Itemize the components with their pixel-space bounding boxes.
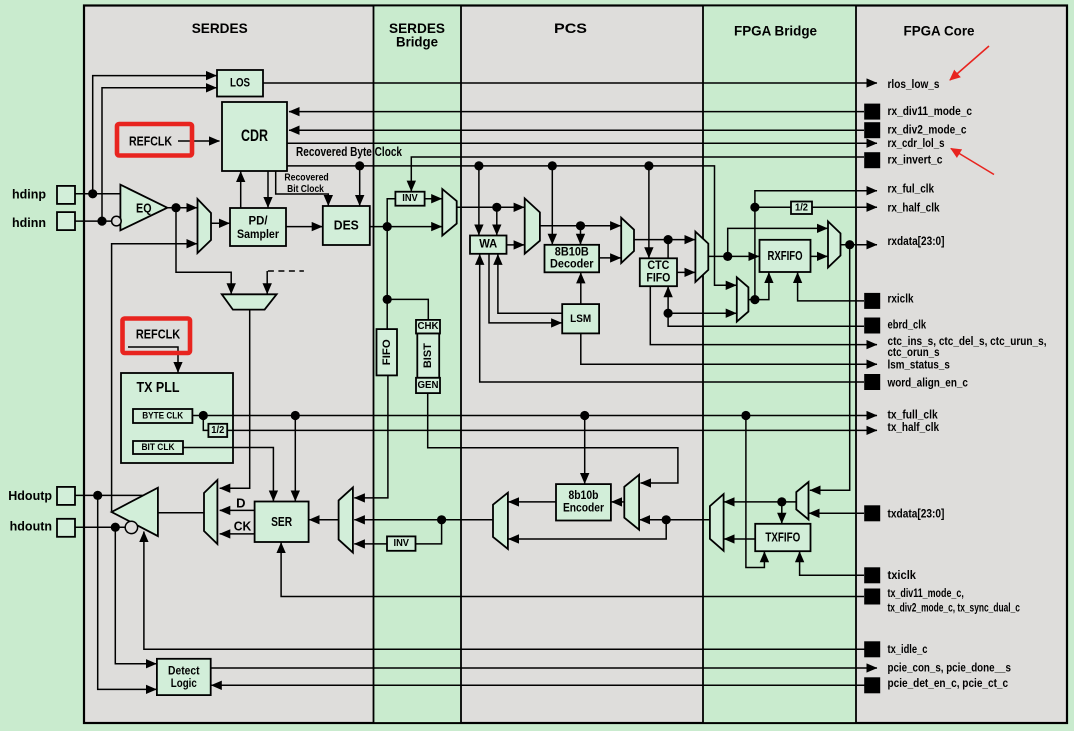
wire LSM status output <box>581 332 877 364</box>
junction DES output <box>383 222 392 231</box>
wire WA to LSM <box>489 254 562 323</box>
junction TX data INV2 <box>437 515 446 524</box>
block LOS <box>217 70 263 97</box>
junction hdinp-LOS <box>88 189 97 198</box>
wire REFCLK to CDR <box>178 140 220 142</box>
block LSM <box>562 304 599 333</box>
wire byte clock tap to WA <box>478 166 480 235</box>
port square word_align_en_c <box>864 374 880 390</box>
wire recovered byte clock <box>287 166 736 285</box>
svg-text:TX PLL: TX PLL <box>137 380 180 396</box>
wire encoder bypass <box>508 520 666 539</box>
svg-text:lsm_status_s: lsm_status_s <box>888 360 950 372</box>
svg-text:FPGA Core: FPGA Core <box>904 22 975 38</box>
wire ebrd_clk <box>668 313 864 326</box>
port square tx_div11 controls <box>864 589 880 605</box>
wire Hdoutp branch to detect logic <box>98 495 157 689</box>
wire CDR output rx_cdr_lol_s <box>287 142 877 144</box>
svg-text:pcie_det_en_c, pcie_ct_c: pcie_det_en_c, pcie_ct_c <box>888 678 1009 690</box>
wire byte clock tap to 8B10B decoder <box>551 166 553 244</box>
svg-text:PD/: PD/ <box>249 213 269 227</box>
wire lower mux to RXFIFO write <box>748 273 769 300</box>
wire clock tap to divider <box>755 206 791 208</box>
wire WA output to PCS mux <box>507 244 525 246</box>
pad Hdoutp <box>57 487 75 505</box>
wire rx_invert_c to INV <box>411 157 864 191</box>
wire byte clock to encoder <box>584 416 586 484</box>
junction TXFIFO input <box>777 497 786 506</box>
block PD/Sampler <box>230 208 286 246</box>
wire REFCLK to TX PLL <box>128 347 178 372</box>
wire PCS mux1 to mux2 <box>540 225 621 227</box>
mux M3 bridge RX <box>442 189 456 236</box>
wire DES output to bridge mux <box>370 226 442 228</box>
svg-text:rlos_low_s: rlos_low_s <box>888 79 940 91</box>
block divider 1/2 rx <box>791 202 812 215</box>
wire clock mux to driver mux <box>220 310 250 489</box>
svg-text:CHK: CHK <box>418 321 440 332</box>
junction byte clock decoder <box>548 161 557 170</box>
wire tx_idle_c to driver <box>144 532 865 650</box>
clock select mux (wide trapezoid) <box>222 294 277 309</box>
block WA <box>470 236 507 254</box>
wire dashed stub <box>268 270 304 272</box>
svg-text:LSM: LSM <box>570 313 591 325</box>
wire bridge mux to PCS mux <box>457 206 525 208</box>
svg-text:rx_ful_clk: rx_ful_clk <box>888 183 935 195</box>
svg-text:REFCLK: REFCLK <box>136 326 181 341</box>
red annotation arrow 2 <box>951 149 994 175</box>
wire CDR to PD/Sampler <box>267 171 269 208</box>
block FIFO <box>377 329 398 375</box>
wire DES tap to FIFO <box>386 227 388 330</box>
svg-text:tx_div11_mode_c,: tx_div11_mode_c, <box>888 588 964 600</box>
block 8b10b Encoder <box>556 484 611 520</box>
junction TX data bypass <box>662 515 671 524</box>
block divider 1/2 tx <box>208 424 227 437</box>
junction WA input <box>492 203 501 212</box>
svg-text:rx_div11_mode_c: rx_div11_mode_c <box>888 106 973 118</box>
wire BIT CLK to SER <box>183 448 273 502</box>
wire rx_div2_mode_c to CDR <box>289 129 864 131</box>
block BYTE CLK <box>133 409 192 423</box>
wire divider to tx_half_clk <box>227 429 877 431</box>
wire txiclk to TXFIFO <box>800 552 864 576</box>
block CHK <box>416 320 440 334</box>
wire tap to CHK <box>387 299 428 320</box>
junction rxdata <box>845 240 854 249</box>
wire byte clock tap to DES <box>359 166 361 206</box>
output driver triangle <box>112 488 158 536</box>
wire rx_div11_mode_c to CDR <box>289 111 864 113</box>
wire DES output tap to INV <box>387 199 395 227</box>
block CDR <box>222 102 287 171</box>
mux M10 driver select <box>204 480 217 544</box>
wire tap to bridge RX mux input 1 <box>728 228 828 256</box>
port square rx_div2_mode_c <box>864 122 880 138</box>
svg-text:tx_div2_mode_c, tx_sync_dual_c: tx_div2_mode_c, tx_sync_dual_c <box>888 603 1021 615</box>
wire byte clock to SER <box>294 416 296 502</box>
junction EQ output <box>171 203 180 212</box>
wire tx_div11 controls to SER <box>281 543 864 597</box>
FPGA Bridge green column <box>703 6 856 724</box>
svg-text:8B10B: 8B10B <box>555 246 589 258</box>
wire txdata to small TX mux <box>809 512 864 514</box>
wire tap to decoder top <box>580 226 582 245</box>
wire tap to CTC FIFO bottom <box>667 287 669 314</box>
svg-text:txdata[23:0]: txdata[23:0] <box>888 509 945 521</box>
svg-text:hdinp: hdinp <box>12 187 46 201</box>
junction byte clk 1/2 <box>199 411 208 420</box>
svg-text:Hdoutp: Hdoutp <box>8 489 52 503</box>
wire PCS TX mux to SER mux <box>354 519 493 521</box>
wire CTC FIFO status outputs <box>650 286 877 344</box>
junction ebrd/CTC <box>664 309 673 318</box>
svg-text:GEN: GEN <box>418 380 439 391</box>
wire GEN to encoder mux <box>428 393 678 483</box>
wire tap to WA top <box>496 207 498 235</box>
block INV 2 <box>387 536 416 550</box>
svg-text:BYTE CLK: BYTE CLK <box>142 411 183 422</box>
wire LSM to decoder <box>580 273 582 305</box>
pad hdinn <box>57 212 75 230</box>
svg-text:SER: SER <box>271 515 292 529</box>
wire mux2 output tap to CTC FIFO top <box>667 240 669 258</box>
svg-text:Sampler: Sampler <box>237 227 279 241</box>
mux M8 bridge RX clock <box>737 277 749 321</box>
wire divider to rx_half_clk <box>812 206 877 208</box>
port square rxiclk <box>864 293 880 309</box>
wire encoder to PCS TX mux <box>508 501 556 503</box>
wire hdoutn branch to detect logic <box>115 527 156 664</box>
wire hdinp to EQ <box>75 193 120 195</box>
port square rx_div11_mode_c <box>864 104 880 120</box>
junction FIFO/CHK <box>383 295 392 304</box>
block SER <box>255 502 309 543</box>
mux M12 PCS TX right <box>624 475 639 530</box>
wire hdinn to EQ bubble <box>75 220 112 222</box>
driver output bubble <box>125 521 137 533</box>
wire EQ tap to clock mux <box>176 208 231 294</box>
svg-text:Encoder: Encoder <box>563 503 604 515</box>
svg-text:Logic: Logic <box>171 676 197 690</box>
wire PD/Sampler to DES <box>286 226 322 228</box>
junction byte clock DES <box>355 161 364 170</box>
svg-text:1/2: 1/2 <box>211 425 224 436</box>
svg-text:Bridge: Bridge <box>396 34 438 50</box>
mux M9 SER input select <box>339 487 353 552</box>
wire pcie_con_s output <box>211 667 877 669</box>
pad hdinp <box>57 186 75 204</box>
block 8B10B Decoder <box>545 245 600 272</box>
svg-text:hdinn: hdinn <box>12 216 46 230</box>
svg-text:rx_div2_mode_c: rx_div2_mode_c <box>888 125 968 137</box>
mux M4 PCS RX 1 <box>525 198 540 253</box>
svg-text:TXFIFO: TXFIFO <box>765 531 800 545</box>
junction mux2 output <box>664 235 673 244</box>
svg-text:PCS: PCS <box>554 20 587 36</box>
junction hdinn-LOS <box>97 217 106 226</box>
wire FIFO to SER mux <box>354 375 388 498</box>
wire tap to TXFIFO top <box>781 502 783 523</box>
wire tap to INV2 <box>416 520 442 544</box>
mux M1 RX input select <box>198 199 212 253</box>
wire CTC FIFO output to PCS edge mux <box>677 271 695 273</box>
wire rxiclk to RXFIFO <box>798 273 864 301</box>
svg-text:SERDES: SERDES <box>192 20 248 36</box>
mux M13 bridge TX <box>710 494 724 551</box>
block BIST <box>417 334 439 378</box>
svg-text:txiclk: txiclk <box>888 570 917 582</box>
svg-text:Recovered Byte Clock: Recovered Byte Clock <box>296 145 402 159</box>
wire mux2 to PCS edge mux <box>634 239 695 241</box>
wire SER CK output <box>220 533 255 535</box>
wire pcie_det_en_c input <box>211 684 864 686</box>
svg-text:rx_half_clk: rx_half_clk <box>888 203 941 215</box>
block RXFIFO <box>760 240 811 272</box>
junction rx_half tap <box>750 203 759 212</box>
svg-text:FIFO: FIFO <box>381 339 393 365</box>
svg-text:rxiclk: rxiclk <box>888 294 915 306</box>
junction decoder input <box>576 221 585 230</box>
svg-text:word_align_en_c: word_align_en_c <box>887 378 969 390</box>
wire tap to divider 1/2 <box>203 416 208 431</box>
svg-text:EQ: EQ <box>136 201 152 215</box>
block GEN <box>416 378 440 393</box>
svg-text:BIST: BIST <box>422 343 434 368</box>
junction byte clk TXFIFO <box>741 411 750 420</box>
REFCLK red box 1 <box>117 124 192 156</box>
wire recovered bit clock to DES <box>276 171 329 206</box>
mux M11 PCS TX left <box>493 493 508 549</box>
wire PD/Sampler to CDR <box>240 172 242 209</box>
svg-text:tx_idle_c: tx_idle_c <box>888 644 928 656</box>
wire hdinp branch to LOS input 1 <box>93 76 217 194</box>
port square pcie_det_en_c <box>864 677 880 693</box>
wire serial loopback from driver to mux <box>112 244 197 511</box>
wire clock to rx_ful_clk <box>755 191 877 300</box>
wire EQ output to mux <box>167 207 197 209</box>
wire bridge RX mux output rxdata <box>841 244 878 246</box>
block DES <box>323 206 370 245</box>
wire small TX mux to bridge TX mux <box>724 501 796 503</box>
svg-text:INV: INV <box>394 538 410 549</box>
wire LSM to WA <box>498 254 562 313</box>
red annotation arrow 1 <box>950 46 989 80</box>
wire SER D output <box>220 509 255 511</box>
wire TXFIFO output to bridge TX mux <box>724 538 755 540</box>
svg-text:tx_half_clk: tx_half_clk <box>888 422 940 434</box>
port square txiclk <box>864 567 880 583</box>
wire hdoutn <box>75 526 125 528</box>
wire BYTE CLK tx_full_clk <box>192 415 877 417</box>
svg-text:ebrd_clk: ebrd_clk <box>888 319 927 331</box>
block Detect Logic <box>157 659 211 695</box>
svg-text:REFCLK: REFCLK <box>129 134 172 149</box>
wire TX mux to SER <box>309 519 339 521</box>
REFCLK red box 2 <box>123 319 191 354</box>
junction hdoutn <box>111 523 120 532</box>
svg-text:FIFO: FIFO <box>646 272 670 284</box>
svg-text:Bit Clock: Bit Clock <box>287 184 324 195</box>
junction byte clock WA <box>474 161 483 170</box>
wire encoder mux to encoder <box>611 501 624 503</box>
block CTC FIFO <box>640 258 677 286</box>
wire INV output to bridge mux <box>425 198 442 200</box>
block TX PLL <box>121 373 233 463</box>
svg-text:CTC: CTC <box>647 260 669 272</box>
svg-text:RXFIFO: RXFIFO <box>768 249 803 263</box>
svg-text:FPGA Bridge: FPGA Bridge <box>734 23 817 39</box>
mux M6 PCS edge <box>695 232 708 282</box>
wire stub to clock mux <box>266 271 268 294</box>
wire driver mux to output driver <box>158 512 204 514</box>
svg-text:INV: INV <box>402 193 418 204</box>
svg-text:CDR: CDR <box>241 126 268 145</box>
svg-text:D: D <box>236 496 245 511</box>
wire RXFIFO output to bridge RX mux <box>811 255 828 257</box>
svg-text:CK: CK <box>234 519 252 534</box>
wire mux to PD/Sampler <box>211 222 230 224</box>
svg-text:rxdata[23:0]: rxdata[23:0] <box>888 236 945 248</box>
EQ buffer triangle <box>120 185 167 231</box>
wire byte clock to TXFIFO <box>746 416 765 568</box>
block TXFIFO <box>755 524 810 551</box>
wire tap to FPGA bridge lower mux <box>668 312 736 314</box>
svg-text:Decoder: Decoder <box>550 259 594 271</box>
svg-text:rx_cdr_lol_s: rx_cdr_lol_s <box>888 138 945 150</box>
wire hdinn branch to LOS input 2 <box>102 88 217 221</box>
wire byte clock tap to CTC FIFO <box>648 166 650 258</box>
svg-text:pcie_con_s, pcie_done__s: pcie_con_s, pcie_done__s <box>888 663 1011 675</box>
svg-text:DES: DES <box>334 219 359 233</box>
svg-text:BIT CLK: BIT CLK <box>142 442 175 453</box>
port square rx_invert_c <box>864 152 880 168</box>
port square tx_idle_c <box>864 641 880 657</box>
wire PCS edge mux to RXFIFO <box>708 255 759 257</box>
mux M5 PCS RX 2 <box>621 218 634 263</box>
svg-text:8b10b: 8b10b <box>568 490 598 502</box>
svg-text:ctc_orun_s: ctc_orun_s <box>888 347 940 359</box>
wire decoder output to mux2 <box>599 257 621 259</box>
junction Hdoutp <box>93 491 102 500</box>
junction byte clk SER <box>291 411 300 420</box>
svg-text:WA: WA <box>479 239 497 251</box>
wire Hdoutp <box>75 494 143 496</box>
svg-text:LOS: LOS <box>230 77 250 89</box>
svg-text:hdoutn: hdoutn <box>10 519 52 533</box>
svg-text:1/2: 1/2 <box>795 202 808 213</box>
port square ebrd_clk <box>864 318 880 334</box>
junction RXFIFO input <box>723 252 732 261</box>
block INV 1 <box>395 192 424 206</box>
wire LOS output rlos_low_s <box>263 82 877 84</box>
wire bridge TX mux to encoder mux <box>640 519 710 521</box>
svg-text:tx_full_clk: tx_full_clk <box>888 410 939 422</box>
svg-text:rx_invert_c: rx_invert_c <box>888 154 944 166</box>
junction rx clock <box>750 295 759 304</box>
EQ input bubble <box>112 216 122 226</box>
wire rxdata loop to TX mux <box>810 245 850 491</box>
mux M7 bridge RX out <box>828 221 841 267</box>
junction byte clock CTC <box>644 161 653 170</box>
pad hdoutn <box>57 519 75 537</box>
port square txdata[23:0] <box>864 505 880 521</box>
wire word_align_en_c to WA <box>480 254 864 382</box>
wire INV2 to SER mux <box>354 543 387 545</box>
block BIT CLK <box>133 441 183 454</box>
SERDES Bridge green column <box>374 6 462 724</box>
junction byte clk encoder <box>580 411 589 420</box>
svg-text:Recovered: Recovered <box>284 172 328 183</box>
mux M14 bridge TX small <box>796 482 808 520</box>
